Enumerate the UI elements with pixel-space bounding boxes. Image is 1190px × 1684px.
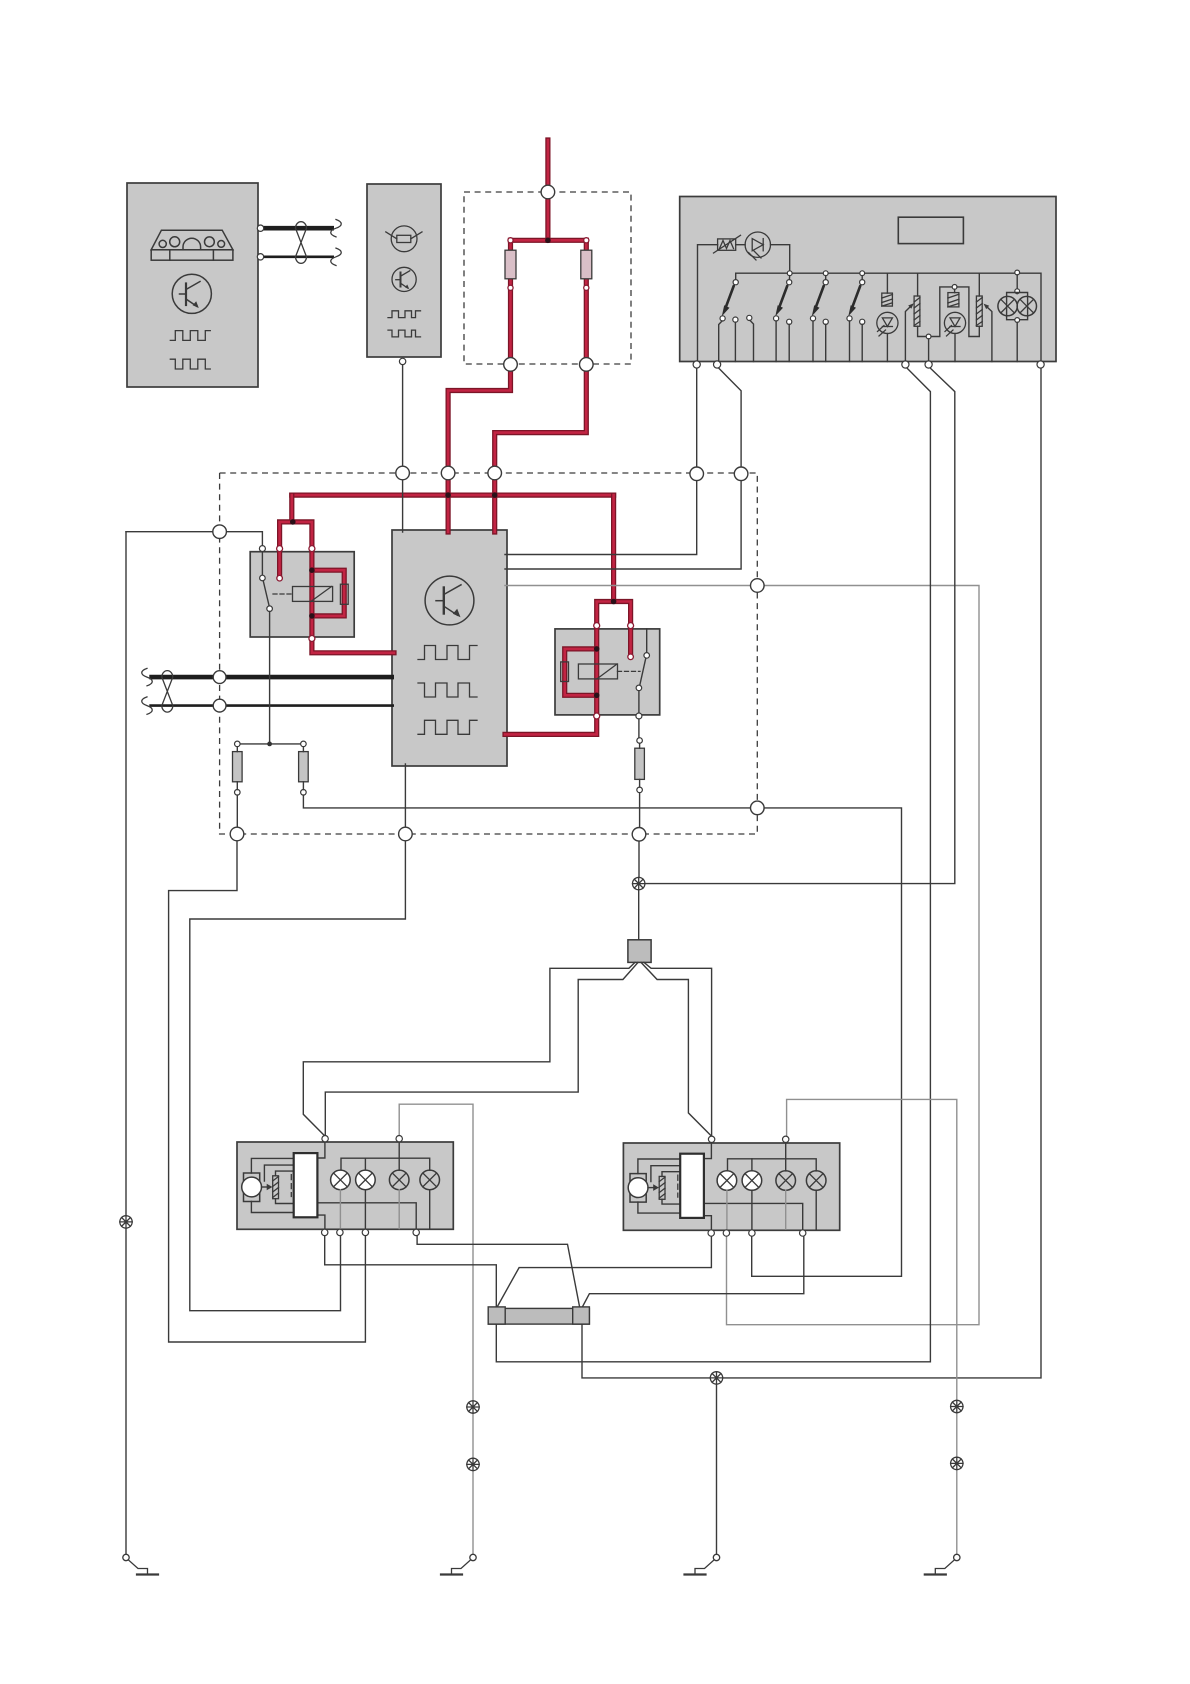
wire right cluster out to bar left cap [497, 1236, 711, 1307]
wire left cluster out to bar left cap [325, 1236, 497, 1307]
headlamp relay (white) [680, 1154, 704, 1218]
rheostat module chain (hatched resistor R2) [957, 273, 992, 361]
wire red inside left relay [280, 552, 345, 636]
right relay resistor [561, 662, 569, 682]
square wave symbol 2 (box1) [170, 359, 210, 369]
connector on dashed bottom edge A [230, 827, 244, 841]
connector on dashed left edge B [213, 671, 226, 684]
ground G1 [123, 1554, 158, 1574]
twist symbol (mid pair) [162, 671, 173, 713]
wire central unit bottom to left cluster lamp1 [190, 764, 406, 1311]
square wave symbol 2 (box2) [388, 330, 421, 337]
ground G3 [685, 1554, 720, 1574]
fuse F2 [299, 741, 309, 795]
connector on dashed left edge C [213, 699, 226, 712]
lamp return wires [727, 1190, 816, 1229]
right relay coil K2 [578, 664, 640, 679]
wire LED to bus [771, 245, 790, 274]
splice S7 [951, 1457, 963, 1469]
fuse box dashed outline [464, 192, 631, 364]
headlamp relay (white) [294, 1153, 318, 1217]
instrument cluster icon [151, 230, 233, 260]
wire fuse F2 to right cluster lamp feed [303, 795, 901, 1276]
splice S6 [951, 1400, 963, 1412]
connector on dashed top edge B [441, 466, 455, 480]
wire right relay output via fuse F3 to distribution square [638, 841, 640, 940]
tail light connector bar [488, 1307, 589, 1324]
wire fuse tee bar [511, 238, 587, 243]
junction dots red [290, 238, 616, 699]
data wire thin (mid pair) [149, 704, 394, 707]
connector on dashed top edge D [690, 467, 704, 481]
dashed harness box [220, 473, 758, 834]
headlamp bulb and heater [628, 1174, 665, 1203]
headlamp relay left (relay box) [250, 552, 354, 637]
parallel lamp pair [998, 270, 1037, 361]
transistor symbol U (box1) [172, 274, 211, 313]
rheostat module chain (hatched resistor R1) [905, 273, 951, 361]
connector on dashed bottom edge C [632, 828, 646, 842]
wire pot-LED branch left lead [698, 245, 718, 362]
wire left relay output to central unit [312, 642, 394, 653]
wire square to right cluster feed a [644, 962, 712, 1136]
switch S1 [719, 273, 754, 361]
left relay switch input wire [126, 532, 262, 546]
wire central unit to right cluster lamp1 (gray) [505, 586, 979, 1325]
wire square to left cluster feed a [303, 962, 635, 1136]
wire right relay output to central unit [505, 719, 597, 734]
wire red feed to left relay [280, 495, 312, 545]
wire red feed to right relay [597, 495, 631, 654]
central lighting control unit [392, 530, 507, 766]
cable continuation hook (top pair lower) [331, 248, 342, 265]
wire central unit to top-right box pin1 [505, 362, 697, 555]
resistor-LED module A [877, 273, 898, 361]
headlamp control module (top-right box) [680, 197, 1056, 362]
connector on fuse box bottom right [580, 358, 594, 372]
wire red inside right relay [565, 631, 597, 714]
left relay resistor [340, 584, 348, 604]
connector top-right box pin3 [902, 361, 909, 368]
wire top-right box pin4 to center splice [645, 367, 955, 884]
headlamp bulbs L1-L4 [717, 1171, 826, 1191]
light switch module (box 2) [367, 184, 441, 357]
data wire thick (mid pair) [149, 675, 394, 680]
wire fuse F1 to left cluster lamp2 [169, 841, 366, 1342]
splice S3 [467, 1401, 479, 1413]
connector on dashed top edge C [488, 466, 502, 480]
wire through fuse FL [508, 240, 513, 364]
headlamp bulb and heater [242, 1173, 279, 1202]
twist symbol (top pair) [296, 222, 307, 264]
ground G2 [441, 1554, 476, 1574]
ground G4 [925, 1554, 960, 1574]
lamp failure sensor icon (circled resistor) [386, 226, 422, 252]
connector on dashed top edge A [396, 466, 410, 480]
connector on dashed right edge B [751, 801, 765, 815]
lamp return wires [340, 1190, 429, 1229]
cable continuation hook (mid pair lower) [142, 697, 153, 714]
connector top-right box pin5 [1037, 361, 1044, 368]
potentiometer R (rheostat) [714, 235, 741, 253]
data wire thin (top pair) [263, 255, 334, 258]
switch S3 [810, 271, 828, 362]
square wave symbol 3 (central unit) [418, 720, 477, 734]
wire fuse FL output to central unit [448, 370, 510, 532]
wire fuse FR output to central unit [495, 370, 587, 532]
display window rectangle [898, 217, 963, 243]
left relay switch [259, 546, 272, 744]
fuse F3 [635, 719, 645, 827]
wire relay to fuse bar [237, 743, 303, 745]
wire pot to LED [736, 244, 745, 246]
switch S2 [774, 271, 793, 362]
headlamp unit internal wiring [638, 1143, 816, 1230]
fuse FL [508, 238, 513, 243]
connector top-right box pin2 [714, 361, 721, 368]
wire central unit to top-right box pin2 [505, 367, 741, 570]
splice S2 [633, 877, 645, 889]
cable continuation hook (mid pair upper) [142, 668, 153, 685]
wire through fuse FR [584, 240, 589, 364]
headlamp unit internal wiring [251, 1142, 429, 1229]
connector top-right box pin1 [693, 361, 700, 368]
left relay connector circles [277, 546, 315, 642]
wire top-right box pin3 down to tail bar left [496, 367, 930, 1362]
connector top-right box pin4 [925, 361, 932, 368]
connector on dashed right edge A [751, 579, 765, 593]
right relay switch [636, 629, 649, 713]
combined instrument panel unit (top-left box) [127, 183, 258, 387]
data wire thick (top pair) [263, 226, 334, 231]
right relay connector circles [594, 623, 642, 719]
wire top-right box pin5 to tail bar right [582, 367, 1041, 1378]
connector on box1 edge lower [257, 254, 263, 260]
indicator LED D1 [745, 232, 770, 260]
wire 30-feed from top [545, 140, 550, 186]
distribution connector block [628, 940, 651, 963]
connector on dashed left edge A [213, 525, 227, 539]
wire left cluster lamp3 to ground G2 (gray) [399, 1104, 473, 1554]
right headlamp cluster box [623, 1143, 839, 1230]
splice S1 [120, 1216, 132, 1228]
wire square to left cluster feed b [325, 962, 638, 1135]
wire left cluster pin4 to bar right cap [417, 1236, 579, 1307]
connector on dashed top edge E [734, 467, 748, 481]
square wave symbol 1 (box2) [388, 311, 421, 318]
square wave symbol 2 (central unit) [418, 683, 477, 697]
square wave symbol 1 (central unit) [418, 646, 477, 660]
internal supply bus [736, 273, 1041, 361]
resistor-LED module B [944, 285, 965, 362]
transistor symbol (box2) [392, 267, 416, 291]
wire left feed down to ground G1 [125, 532, 127, 1555]
connector on dashed bottom edge B [399, 827, 413, 841]
wire right cluster lamp3 to ground G4 (gray) [787, 1099, 957, 1554]
cluster connector pins [322, 1136, 420, 1236]
headlamp bulbs L1-L4 [331, 1170, 440, 1190]
connector on fuse box bottom left [504, 358, 518, 372]
left relay coil K1 [273, 587, 333, 602]
cable continuation hook (top pair upper) [331, 220, 342, 237]
splice S4 [467, 1458, 479, 1470]
wire square to right cluster feed b [641, 962, 712, 1136]
wire right cluster pin4 to bar right cap [583, 1236, 804, 1307]
switch S4 [847, 271, 865, 362]
wire splice to ground G3 [716, 1384, 718, 1554]
connector box2 bottom [399, 358, 405, 364]
connector on box1 edge upper [257, 225, 263, 231]
headlamp relay right (relay box) [555, 629, 660, 715]
fuse F1 [233, 741, 243, 827]
junction dot [267, 742, 272, 747]
wire feed to fuse tee [545, 199, 550, 241]
wire red distribution bus [292, 493, 614, 498]
connector C on fuse box top [541, 185, 555, 199]
cluster connector pins [708, 1136, 806, 1236]
square wave symbol 1 (box1) [170, 331, 210, 341]
transistor symbol (central unit) [425, 576, 474, 625]
wire box2 to central unit [402, 365, 404, 532]
left headlamp cluster box [237, 1142, 453, 1229]
fuse FR [584, 238, 589, 243]
splice S5 [710, 1372, 722, 1384]
